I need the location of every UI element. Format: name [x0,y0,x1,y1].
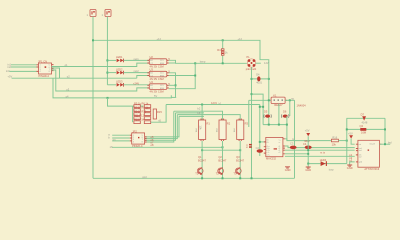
node junction lamp diode [251,78,253,80]
wire R3 to T3 [239,141,241,178]
wire U5 serial2 [285,149,355,151]
svg-text:+5V: +5V [348,131,353,135]
svg-text:GND: GND [285,168,291,172]
node junction IC3 right [384,143,386,145]
wire crystal bottom [347,128,385,130]
svg-text:4148: 4148 [362,120,368,124]
diode D9 [361,113,368,125]
node junction S2 row1 [106,59,108,61]
crystal Q4 [360,124,367,134]
wire R1 top drop [201,105,203,121]
svg-text:ATTINY2313: ATTINY2313 [364,167,379,171]
svg-text:Q1: Q1 [198,155,202,159]
svg-text:BC547: BC547 [198,159,206,163]
node junction relay left [268,99,270,101]
wire relay right pin [285,99,294,101]
wire relay left pin [249,99,271,101]
capacitor C3 [290,142,297,150]
diode D7 [281,110,289,118]
wire nested vertical 2 [145,113,176,140]
wire input D +5V [12,77,137,79]
optocoupler OK1 [147,55,169,68]
ic IC3 [356,140,382,171]
wire W1 right vertical [259,105,261,150]
svg-text:R5 1k R6 1k: R5 1k R6 1k [134,102,149,106]
svg-text:R2: R2 [227,121,231,125]
node junction diode rail c [278,124,280,126]
diode D6 [264,110,272,118]
wire relay coil bottom pin [278,104,280,125]
svg-text:R7 1k R8 1k: R7 1k R8 1k [134,106,149,110]
wire nested1 [174,111,223,120]
wire block row5 out [151,105,166,123]
svg-text:LED3: LED3 [116,80,123,84]
node junction base R1 [201,149,203,151]
svg-text:PL: PL [247,55,251,59]
svg-text:in3: in3 [6,69,10,73]
svg-text:R16: R16 [332,135,337,139]
wire cross link [260,106,263,108]
wire IC2 left pin3 [112,140,130,142]
wire IC1 out2 drop [52,68,60,78]
svg-text:txd: txd [359,149,362,152]
wire D2 to opto2 [124,72,150,74]
svg-text:C1: C1 [245,145,249,149]
wire nested2 [176,112,205,114]
wire nested3 [177,115,240,120]
svg-text:R3: R3 [245,121,249,125]
wire diode left leg [248,100,250,127]
svg-text:LED2: LED2 [116,67,123,71]
svg-text:BC547: BC547 [218,159,226,163]
led D8 [320,158,327,166]
node junction rail T1 [201,177,203,179]
svg-text:D5: D5 [264,110,268,114]
svg-text:R15: R15 [157,110,162,114]
wire base bus 2 [202,149,240,151]
wire base bus 1 [112,146,222,148]
wire lamp right stub [256,62,261,64]
svg-text:+24V: +24V [133,81,139,85]
wire opto2 collector down [169,73,176,98]
svg-text:net2: net2 [134,69,140,73]
diode D5 flyback [256,72,262,84]
wire bottom ground rail [93,177,295,179]
node junction opto3 collector [175,84,177,86]
node junction R16 rail [346,140,348,142]
node junction U5 pin1 [259,141,261,143]
svg-text:led: led [388,141,392,145]
supply symbol VCC3 [348,131,353,138]
supply symbol +5V S1 [87,10,97,18]
capacitor C1 on lamp column [245,144,252,148]
wire opto2 emitter join [169,75,195,77]
node junction S2 row2 [106,72,108,74]
wire U5 serial3 [285,153,308,155]
wire input B [11,66,37,68]
node junction x195 [194,62,196,64]
svg-text:gnd: gnd [142,175,147,179]
wire diode branch [252,78,269,80]
wire nested4 [179,115,204,117]
svg-text:U3: U3 [150,68,154,72]
svg-text:16M: 16M [361,131,366,135]
optocoupler OK3 [147,80,169,93]
svg-text:D4: D4 [256,72,260,76]
wire input A [11,64,37,66]
svg-text:R9 1k R10: R9 1k R10 [134,110,147,114]
svg-text:10k: 10k [332,142,337,146]
resistor R3 [233,119,249,142]
svg-text:GND: GND [305,168,311,172]
node junction relay right [289,99,291,101]
svg-text:Q3: Q3 [236,155,240,159]
svg-text:K1: K1 [273,93,277,97]
svg-text:12V: 12V [264,61,269,65]
wire nested vertical 4 [145,116,179,136]
ground GND1 [305,164,311,172]
node junction cross link b [262,106,264,108]
resistor R1 [195,119,211,142]
node junction rail lamp [251,177,253,179]
svg-text:PINHD-4: PINHD-4 [39,74,50,78]
wire opto row2 anode [107,72,116,74]
wire IC3 right out [379,143,390,145]
wire U5 pin1 feed [260,141,266,143]
ic U5 [264,137,285,160]
wire vertical x195 [169,63,195,88]
wire U5 serial4 [285,155,355,157]
wire IC1 out4 lower [53,78,171,98]
transistor T3 [233,155,244,176]
node junction rail T2 [222,177,224,179]
svg-text:JP1 CN: JP1 CN [38,60,47,64]
svg-text:LED1: LED1 [116,55,123,59]
wire IC1 out1 [52,63,150,66]
node junction diode rail [268,124,270,126]
wire opto row3 anode [107,84,116,86]
wire IC3 feed left [351,139,355,145]
node junction W1 R1 [201,104,203,106]
resistor R2 [215,119,231,142]
node junction lamp corner [251,93,253,95]
wire rect right [384,118,386,144]
svg-text:Q4: Q4 [360,124,364,128]
wire top +V horizontal [93,40,269,124]
wire D3 to opto3 [124,84,150,86]
svg-text:U2: U2 [150,55,154,59]
svg-text:MAX232: MAX232 [266,157,277,161]
svg-text:4N 35/ CSM: 4N 35/ CSM [150,89,164,93]
wire opto1 emitter join [169,62,176,64]
node junction R4 bottom [222,62,224,64]
wire S2 vertical rail [106,17,108,85]
label IC3 nc pins [349,153,352,162]
node junction S1 top rail [92,39,94,41]
wire IC3 ground [350,162,355,165]
svg-text:R11 R12: R11 R12 [134,114,145,118]
wire relay diode right leg [289,100,291,116]
node junction rail T3 [239,177,241,179]
wire R1 to T1 [201,141,203,178]
wire opto3 collector stub [169,84,176,86]
wire opto1 collector to lamp [169,60,247,63]
resistor R4 [217,40,228,63]
svg-text:1N4004: 1N4004 [297,104,307,108]
resistor network block RN1 [133,102,151,124]
svg-text:+12: +12 [238,37,243,41]
svg-text:5V: 5V [154,94,157,98]
svg-text:net1: net1 [134,57,140,61]
connector IC1 [37,60,54,78]
wire rect top [347,117,386,119]
lamp PL1 [246,55,257,71]
optocoupler OK2 [147,68,169,81]
svg-text:rx tx: rx tx [320,151,326,155]
relay K1 [269,93,287,107]
wire nested vertical 3 [145,115,178,139]
node junction base R3 [239,149,241,151]
svg-text:10k: 10k [199,125,203,130]
wire U5 top right [285,139,331,141]
svg-text:LED4: LED4 [320,158,327,162]
wire rect left [346,118,348,163]
ground GND2 [347,165,353,170]
node junction base R2 [222,146,224,148]
wire row2 feed [137,76,150,79]
node junction led wire [307,163,309,165]
capacitor C2 polarized [256,146,263,156]
resistor R16 [331,135,338,146]
svg-text:12Vc: 12Vc [211,101,218,105]
svg-text:+5V: +5V [8,74,13,78]
node junction serial3 [307,153,309,155]
svg-text:+5V: +5V [305,129,310,133]
transistor T1 [195,155,206,176]
svg-text:tiny13: tiny13 [370,143,376,146]
LED D3 [116,80,124,87]
resistor R15 vertical [153,109,162,119]
node junction wire4 S2col [107,97,109,99]
wire opto row1 anode [107,59,116,61]
wire stub joint [171,96,176,98]
wire IC1 out3 [52,70,150,91]
svg-text:icsp: icsp [329,167,334,171]
wire lamp net to relay column [252,94,264,125]
wire D1 to opto1 [124,59,150,61]
wire R16 to rail [338,140,346,142]
wire led bottom [308,163,347,165]
svg-text:U4: U4 [150,80,154,84]
svg-text:4001: 4001 [256,80,262,84]
wire relay right long drop [294,100,296,178]
svg-text:C3: C3 [290,142,294,146]
wire IC2 left pin2 [112,137,130,139]
svg-text:lamp: lamp [200,60,206,64]
svg-text:Q2: Q2 [218,155,222,159]
ic IC2 [130,129,147,148]
node junction rect left [346,128,348,130]
svg-text:R13 R14: R13 R14 [134,118,145,122]
svg-text:C2: C2 [256,146,260,150]
wire drop to resistor block [108,98,134,106]
svg-text:10uF: 10uF [304,139,310,143]
node junction diode right [268,78,270,80]
wire x308 vertical [307,136,309,163]
node junction x195 row2 [194,75,196,77]
supply symbol +5V S2 [102,10,112,18]
svg-text:+12: +12 [157,37,162,41]
node junction varistor branch [259,106,261,108]
wire diode bottom rail [263,124,287,126]
wire IC2 left pin1 [112,134,130,136]
svg-text:in2: in2 [8,65,12,69]
wire R2 to T2 [222,141,224,178]
LED D1 [116,55,124,62]
svg-text:BC547: BC547 [236,159,244,163]
LED D2 [116,67,124,74]
wire D7 drop [286,116,288,141]
ground GND3 [285,167,291,172]
wire input C [9,70,36,72]
capacitor C4 [303,139,312,149]
svg-text:R1: R1 [207,121,211,125]
node junction rect right [384,128,386,130]
svg-text:GND: GND [347,166,353,170]
node junction R4 top [222,39,224,41]
svg-text:D7: D7 [361,113,365,117]
wire W1 collector line [166,104,260,106]
svg-text:JP2: JP2 [132,129,137,133]
supply symbol VCC2 [305,129,310,137]
wire S1 vertical rail [92,17,94,179]
wire U5 serial1 [285,146,355,148]
svg-text:gnd: gnd [359,162,362,164]
wire nested vertical 1 [145,111,174,142]
node junction serial2 [307,149,309,151]
svg-text:R4: R4 [217,48,221,52]
node junction D7 rail [286,124,288,126]
svg-text:D6: D6 [283,110,287,114]
wire lamp bottom vertical [251,67,253,178]
transistor T2 [216,155,227,176]
